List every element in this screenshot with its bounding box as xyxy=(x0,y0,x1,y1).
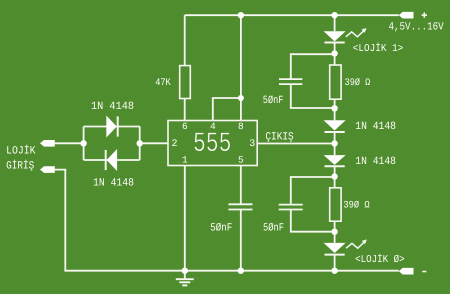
svg-text:5ØnF: 5ØnF xyxy=(210,222,232,234)
svg-text:2: 2 xyxy=(172,139,178,150)
svg-text:1N 4148: 1N 4148 xyxy=(91,101,134,113)
svg-text:1N 4148: 1N 4148 xyxy=(355,121,396,133)
svg-text:47K: 47K xyxy=(155,78,171,89)
svg-text:5ØnF: 5ØnF xyxy=(263,222,284,234)
svg-text:8: 8 xyxy=(238,121,244,132)
svg-text:<LOJİK Ø>: <LOJİK Ø> xyxy=(355,253,405,266)
svg-text:6: 6 xyxy=(182,121,188,132)
svg-text:LOJİK: LOJİK xyxy=(6,144,36,157)
svg-text:39Ø Ω: 39Ø Ω xyxy=(345,78,371,89)
svg-text:1N 4148: 1N 4148 xyxy=(93,178,134,190)
svg-text:3: 3 xyxy=(249,139,255,150)
svg-text:5: 5 xyxy=(238,155,244,166)
svg-text:ÇIKIŞ: ÇIKIŞ xyxy=(265,131,294,143)
svg-text:GİRİŞ: GİRİŞ xyxy=(6,160,34,173)
svg-text:1N 4148: 1N 4148 xyxy=(355,156,396,168)
svg-text:1: 1 xyxy=(182,155,188,166)
svg-text:5ØnF: 5ØnF xyxy=(263,95,284,107)
svg-text:555: 555 xyxy=(193,129,232,160)
svg-text:<LOJİK 1>: <LOJİK 1> xyxy=(353,42,404,55)
svg-text:39Ø Ω: 39Ø Ω xyxy=(343,200,369,211)
svg-text:4,5V...16V: 4,5V...16V xyxy=(389,22,445,34)
